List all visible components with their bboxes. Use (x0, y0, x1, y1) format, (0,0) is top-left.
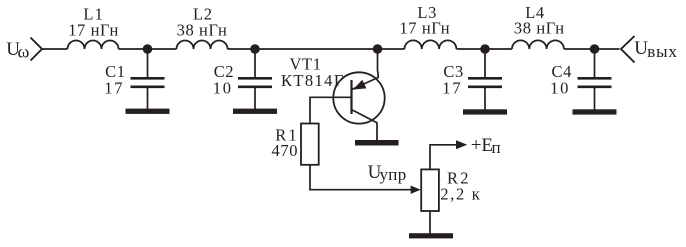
svg-text:вых: вых (647, 42, 677, 61)
wire node D to L4 (485, 48, 512, 50)
wire L1 to node A (119, 48, 148, 50)
wire node A to L2 (148, 48, 177, 50)
Uupr arrowhead into R2 (411, 186, 421, 194)
resistor R1 (301, 124, 319, 165)
wire L2 to node B (228, 48, 256, 50)
capacitor C1 (131, 78, 165, 87)
transistor VT1 circle (333, 72, 384, 123)
wire C4 to ground (594, 88, 596, 110)
svg-text:38 нГн: 38 нГн (514, 18, 565, 37)
ground under C2 (233, 109, 277, 114)
resistor R2 (421, 169, 439, 211)
svg-text:п: п (492, 138, 501, 157)
svg-text:17 нГн: 17 нГн (399, 18, 450, 37)
svg-text:17 нГн: 17 нГн (68, 20, 119, 39)
svg-text:470: 470 (272, 141, 299, 160)
capacitor C4 (578, 78, 612, 87)
node B junction (250, 44, 260, 54)
capacitor C3 wire from node D (484, 49, 486, 77)
ground under VT1 collector (355, 140, 399, 146)
ground under C4 (573, 109, 617, 114)
svg-text:упр: упр (380, 165, 407, 184)
wire C2 to ground (254, 88, 256, 110)
+Ep arrowhead (456, 140, 467, 149)
svg-text:+E: +E (471, 135, 493, 156)
wire input to L1 (42, 48, 68, 50)
capacitor C2 wire from node B (254, 49, 256, 77)
ground under R2 (409, 233, 453, 238)
wire R2 top to +Ep arrow (430, 145, 459, 170)
inductor L1 (68, 41, 119, 49)
svg-text:КТ814Г: КТ814Г (281, 71, 345, 90)
ground under C3 (463, 109, 507, 114)
wire L3 to node D (457, 48, 486, 50)
transistor VT1 collector (352, 110, 377, 140)
node D junction (480, 44, 490, 54)
svg-text:ω: ω (18, 41, 30, 61)
capacitor C3 (468, 78, 502, 87)
input terminal chevron (31, 38, 43, 61)
svg-text:10: 10 (550, 78, 570, 97)
transistor VT1 emitter (352, 72, 379, 90)
capacitor C2 (238, 78, 272, 87)
output terminal chevron (621, 36, 635, 63)
node A junction (143, 44, 153, 54)
svg-text:10: 10 (213, 78, 233, 97)
svg-text:17: 17 (104, 78, 124, 97)
wire node C to L3 (378, 48, 405, 50)
svg-text:17: 17 (442, 78, 462, 97)
transistor VT1 base wire to R1 (310, 97, 352, 123)
transistor VT1 emitter arrow (PNP) (354, 81, 366, 90)
wire L4 to node E (564, 48, 595, 50)
wire R1 bottom to Uupr arrow (310, 165, 412, 190)
capacitor C4 wire from node E (594, 49, 596, 77)
ground under C1 (126, 109, 170, 114)
inductor L4 (512, 40, 564, 49)
inductor L2 (177, 41, 228, 49)
wire node E to output (595, 48, 620, 50)
inductor L3 (405, 40, 457, 49)
wire C3 to ground (484, 88, 486, 110)
wire R2 bottom to ground (429, 211, 431, 234)
transistor VT1 base bar (350, 80, 352, 114)
svg-text:2,2 к: 2,2 к (440, 185, 481, 204)
node C junction (373, 44, 383, 54)
capacitor C1 wire from node A (147, 49, 149, 77)
svg-text:38 нГн: 38 нГн (177, 20, 228, 39)
svg-text:U: U (634, 38, 648, 59)
wire node B to node C (255, 48, 378, 50)
transistor VT1 emitter wire from node C (377, 49, 379, 72)
wire C1 to ground (147, 88, 149, 110)
node E junction (590, 44, 600, 54)
